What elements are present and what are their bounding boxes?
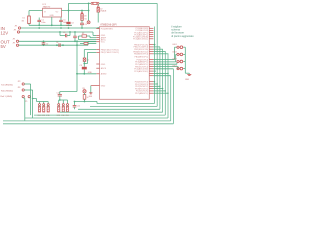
svg-text:JP1: JP1	[14, 29, 17, 31]
svg-text:di pierino aggiustato: di pierino aggiustato	[171, 35, 194, 38]
svg-text:PB4(MISO/PCI): PB4(MISO/PCI)	[134, 54, 148, 56]
svg-text:GND: GND	[101, 64, 106, 66]
svg-text:C9: C9	[80, 65, 82, 67]
svg-text:D1: D1	[23, 18, 25, 20]
svg-text:Rail 1 (GND): Rail 1 (GND)	[1, 96, 13, 98]
svg-text:JP1: JP1	[15, 25, 18, 27]
svg-text:C3: C3	[71, 23, 73, 25]
svg-text:RxD (RS232): RxD (RS232)	[1, 90, 13, 92]
svg-text:LED1: LED1	[173, 44, 177, 46]
svg-text:1k: 1k	[87, 97, 89, 99]
svg-text:ADC6: ADC6	[101, 67, 107, 70]
svg-text:C4: C4	[85, 24, 87, 26]
svg-text:ATMEGA8-16PI: ATMEGA8-16PI	[100, 24, 117, 27]
svg-text:1N4148: 1N4148	[100, 11, 106, 13]
svg-text:JP1: JP1	[13, 43, 16, 45]
svg-text:GND: GND	[50, 15, 55, 17]
svg-text:JP3: JP3	[18, 81, 21, 83]
svg-text:C6: C6	[56, 42, 58, 44]
svg-text:C5: C5	[63, 32, 65, 34]
svg-text:C2: C2	[46, 43, 48, 45]
svg-text:5V: 5V	[1, 44, 6, 49]
svg-text:PB7(XTAL2/TOSC2): PB7(XTAL2/TOSC2)	[101, 51, 120, 54]
svg-text:AGND: AGND	[101, 73, 107, 76]
svg-text:LED2: LED2	[173, 51, 177, 53]
svg-text:GND: GND	[185, 79, 190, 81]
svg-text:100n: 100n	[41, 22, 45, 24]
svg-text:PD7(AIN1/PC): PD7(AIN1/PC)	[135, 92, 148, 95]
svg-text:PC6(/RESET): PC6(/RESET)	[101, 28, 114, 30]
svg-text:TxD (RS232): TxD (RS232)	[1, 84, 13, 86]
svg-text:LED3: LED3	[173, 59, 177, 61]
svg-text:PB4(MISO/PC): PB4(MISO/PC)	[135, 56, 149, 58]
svg-text:R2: R2	[82, 33, 84, 35]
svg-text:GND: GND	[101, 85, 106, 87]
svg-text:7805TV: 7805TV	[43, 7, 51, 9]
svg-text:GND: GND	[88, 72, 93, 74]
svg-text:JP4: JP4	[18, 87, 21, 89]
svg-text:PB6(XTAL1/TOSC1): PB6(XTAL1/TOSC1)	[101, 48, 120, 51]
svg-text:C12: C12	[77, 106, 80, 108]
svg-text:PC5(ADC5/SC): PC5(ADC5/SC)	[134, 70, 148, 73]
svg-text:JP1: JP1	[13, 39, 16, 41]
svg-text:12V: 12V	[1, 30, 9, 35]
svg-text:S1: S1	[85, 19, 87, 21]
svg-text:D3: D3	[84, 16, 86, 18]
svg-text:LED4: LED4	[173, 66, 177, 68]
svg-text:VCC: VCC	[101, 42, 106, 44]
svg-text:PC5(ADC5/SCL): PC5(ADC5/SCL)	[133, 38, 148, 41]
